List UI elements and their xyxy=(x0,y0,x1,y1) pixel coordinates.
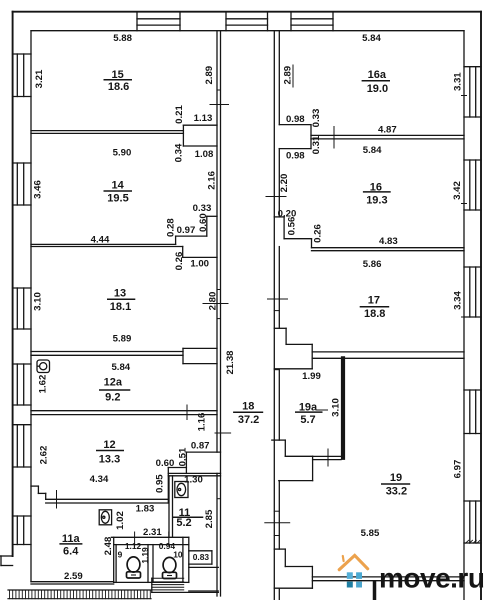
svg-text:4.44: 4.44 xyxy=(91,234,110,245)
svg-text:14: 14 xyxy=(111,180,124,192)
svg-text:2.85: 2.85 xyxy=(204,509,215,528)
svg-text:1.30: 1.30 xyxy=(184,474,203,485)
svg-text:3.31: 3.31 xyxy=(452,72,463,91)
svg-text:9.2: 9.2 xyxy=(105,391,120,403)
svg-text:1.00: 1.00 xyxy=(190,258,209,269)
svg-text:1.13: 1.13 xyxy=(194,113,213,124)
svg-text:0.51: 0.51 xyxy=(177,447,188,466)
svg-text:3.10: 3.10 xyxy=(330,398,341,417)
svg-text:1.08: 1.08 xyxy=(195,149,214,160)
svg-text:2.31: 2.31 xyxy=(143,527,162,538)
svg-text:5.84: 5.84 xyxy=(363,145,382,156)
svg-text:0.33: 0.33 xyxy=(311,109,322,128)
svg-text:1.02: 1.02 xyxy=(115,511,126,530)
svg-text:13: 13 xyxy=(114,288,126,300)
svg-text:1.12: 1.12 xyxy=(125,541,142,551)
svg-text:3.10: 3.10 xyxy=(32,292,43,311)
svg-text:1.62: 1.62 xyxy=(38,375,49,394)
svg-text:18: 18 xyxy=(242,401,254,413)
svg-text:5.84: 5.84 xyxy=(362,33,381,44)
svg-text:2.62: 2.62 xyxy=(39,446,50,465)
svg-text:0.28: 0.28 xyxy=(165,218,176,237)
svg-text:17: 17 xyxy=(368,295,380,307)
svg-text:4.83: 4.83 xyxy=(379,236,398,247)
svg-text:16a: 16a xyxy=(368,69,387,81)
svg-text:2.16: 2.16 xyxy=(206,171,217,190)
svg-text:3.42: 3.42 xyxy=(452,181,463,200)
svg-text:0.97: 0.97 xyxy=(177,225,196,236)
svg-text:0.33: 0.33 xyxy=(193,203,212,214)
svg-text:19.5: 19.5 xyxy=(107,193,128,205)
svg-text:0.98: 0.98 xyxy=(286,114,305,125)
svg-text:1.83: 1.83 xyxy=(136,503,155,514)
svg-text:3.21: 3.21 xyxy=(34,69,45,88)
svg-text:0.21: 0.21 xyxy=(174,105,185,124)
svg-text:3.34: 3.34 xyxy=(452,291,463,310)
svg-text:19.0: 19.0 xyxy=(367,83,388,95)
svg-text:12: 12 xyxy=(103,439,115,451)
svg-text:1.99: 1.99 xyxy=(302,371,321,382)
svg-text:5.86: 5.86 xyxy=(363,259,382,270)
svg-text:37.2: 37.2 xyxy=(238,414,259,426)
svg-text:2.59: 2.59 xyxy=(64,571,83,582)
svg-text:5.84: 5.84 xyxy=(111,362,130,373)
svg-text:18.8: 18.8 xyxy=(364,308,385,320)
svg-text:3.46: 3.46 xyxy=(32,180,43,199)
svg-text:0.60: 0.60 xyxy=(156,458,175,469)
svg-text:2.48: 2.48 xyxy=(103,536,114,555)
svg-text:0.98: 0.98 xyxy=(286,150,305,161)
svg-text:5.89: 5.89 xyxy=(113,333,132,344)
svg-text:move.ru: move.ru xyxy=(379,563,484,594)
svg-text:2.80: 2.80 xyxy=(207,292,218,311)
svg-text:4.34: 4.34 xyxy=(90,474,109,485)
svg-text:33.2: 33.2 xyxy=(386,485,407,497)
svg-text:2.89: 2.89 xyxy=(204,66,215,85)
svg-text:19.3: 19.3 xyxy=(366,194,387,206)
svg-text:0.95: 0.95 xyxy=(154,474,165,493)
svg-text:2.89: 2.89 xyxy=(282,66,293,85)
svg-text:18.1: 18.1 xyxy=(110,301,131,313)
svg-text:5.88: 5.88 xyxy=(113,33,132,44)
svg-text:2.20: 2.20 xyxy=(279,174,290,193)
svg-text:4.87: 4.87 xyxy=(378,124,397,135)
svg-text:18.6: 18.6 xyxy=(108,81,129,93)
svg-text:1.19: 1.19 xyxy=(140,547,150,564)
svg-text:6.4: 6.4 xyxy=(63,546,79,558)
svg-text:5.2: 5.2 xyxy=(176,517,191,529)
svg-text:10: 10 xyxy=(173,549,183,559)
svg-text:0.26: 0.26 xyxy=(174,252,185,271)
svg-text:1.16: 1.16 xyxy=(197,413,208,432)
svg-text:5.85: 5.85 xyxy=(361,528,380,539)
svg-text:5.7: 5.7 xyxy=(300,414,315,426)
svg-text:0.26: 0.26 xyxy=(312,224,323,243)
svg-text:21.38: 21.38 xyxy=(225,350,236,375)
svg-text:0.87: 0.87 xyxy=(191,441,210,452)
svg-text:6.97: 6.97 xyxy=(452,460,463,479)
svg-text:5.90: 5.90 xyxy=(113,147,132,158)
svg-text:12a: 12a xyxy=(104,377,123,389)
svg-text:9: 9 xyxy=(118,550,123,560)
svg-text:0.31: 0.31 xyxy=(311,135,322,154)
svg-text:0.83: 0.83 xyxy=(193,552,210,562)
svg-text:0.56: 0.56 xyxy=(286,217,297,236)
svg-text:13.3: 13.3 xyxy=(99,453,120,465)
svg-text:0.34: 0.34 xyxy=(173,143,184,162)
svg-text:0.60: 0.60 xyxy=(198,213,209,232)
svg-text:19: 19 xyxy=(390,472,402,484)
